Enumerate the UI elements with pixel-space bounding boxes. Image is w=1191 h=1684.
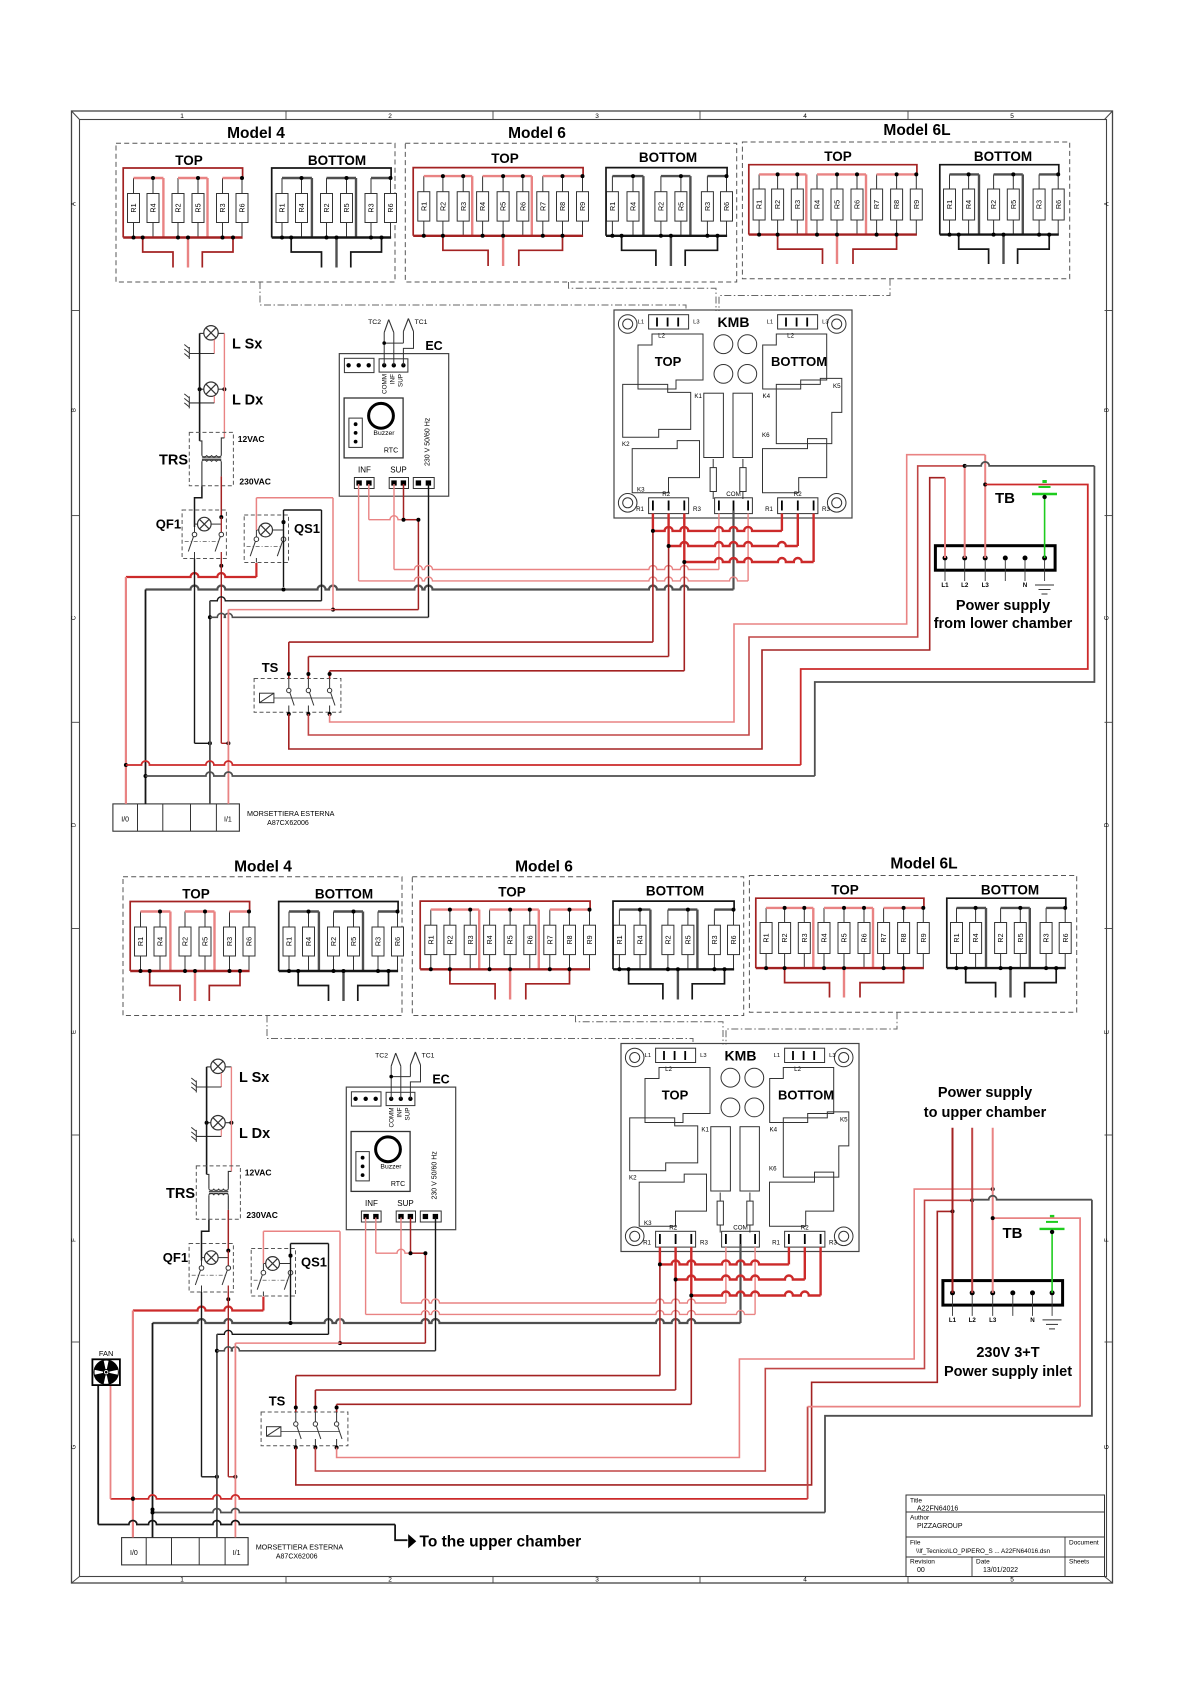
svg-text:R1: R1 — [945, 200, 954, 209]
resistor R7 (Model 6L TOP bank lower) — [878, 908, 890, 968]
svg-text:R3: R3 — [693, 506, 701, 513]
svg-text:to upper chamber: to upper chamber — [924, 1105, 1047, 1121]
svg-text:R1: R1 — [426, 935, 435, 944]
resistor R3 (Model 6 BOTTOM bank upper) — [701, 176, 713, 236]
connector SUP (EC bottom) (upper) — [389, 478, 408, 489]
terminal block TB (upper) — [935, 546, 1055, 571]
svg-text:R1: R1 — [643, 1240, 651, 1247]
svg-text:R6: R6 — [245, 937, 254, 946]
svg-text:L1: L1 — [638, 320, 644, 326]
svg-text:TB: TB — [1003, 1225, 1023, 1242]
svg-text:K5: K5 — [840, 1117, 848, 1124]
resistor R5 (Model 6L BOTTOM bank upper) — [1007, 174, 1019, 234]
svg-text:R5: R5 — [201, 937, 210, 946]
svg-text:G: G — [1105, 1444, 1111, 1449]
svg-text:R5: R5 — [1016, 933, 1025, 942]
label MORSETTIERA ESTERNA (lower) — [256, 1543, 344, 1561]
wire net I0 vertical (lower) — [132, 1311, 134, 1538]
relay coil A (KMB lower) — [711, 1127, 731, 1191]
wire outer loop (Model 4 BOTTOM bank upper) — [272, 168, 391, 238]
resistor R6 (Model 6 TOP bank upper) — [517, 176, 529, 236]
wire tail 3 (Model 6L BOTTOM bank lower) — [1025, 968, 1057, 997]
dashed box QF1 (lower) — [189, 1244, 233, 1293]
wire outer loop (Model 6 TOP bank lower) — [420, 901, 590, 969]
contactor coil TS (upper) — [260, 693, 274, 703]
svg-text:L1: L1 — [767, 320, 773, 326]
contactor linkage TS (upper) — [274, 697, 333, 699]
contactor coil TS (lower) — [267, 1427, 281, 1437]
wire tail 2 (Model 6 TOP bank lower) — [509, 969, 511, 999]
wire outer loop (Model 6 BOTTOM bank upper) — [606, 168, 727, 236]
dashed box QS1 (upper) — [244, 515, 288, 563]
wire tail 2 (Model 4 TOP bank lower) — [194, 971, 196, 1001]
svg-text:R1: R1 — [615, 935, 624, 944]
svg-text:K6: K6 — [769, 1166, 777, 1173]
wire QS1 right to gray bus (lower) — [290, 1256, 292, 1321]
svg-text:R8: R8 — [558, 202, 567, 211]
svg-text:R1: R1 — [636, 506, 644, 513]
resistor R5 (Model 4 BOTTOM bank upper) — [341, 178, 353, 238]
buzzer (EC) (upper) — [369, 403, 394, 428]
wire tail 1 (Model 6L BOTTOM bank upper) — [959, 235, 989, 264]
svg-text:R4: R4 — [820, 933, 829, 942]
svg-text:SUP: SUP — [397, 1199, 413, 1208]
svg-text:R8: R8 — [899, 933, 908, 942]
resistor R4 (Model 6L TOP bank lower) — [818, 908, 830, 968]
wire top bus (Model 4 TOP bank lower) — [141, 912, 250, 972]
svg-text:TRS: TRS — [159, 453, 188, 469]
resistor R2 (Model 6L TOP bank upper) — [772, 174, 784, 234]
wire QF1 left to strip (lower) — [201, 1292, 203, 1477]
svg-text:R3: R3 — [225, 937, 234, 946]
svg-text:R5: R5 — [342, 203, 351, 212]
wire tail 1 (Model 4 BOTTOM bank upper) — [291, 238, 321, 268]
resistor R6 (Model 6 BOTTOM bank upper) — [721, 176, 733, 236]
junctions (Model 4 TOP bank lower) — [139, 910, 252, 974]
wire QF1 left to strip (upper) — [194, 559, 196, 744]
svg-text:R2: R2 — [773, 200, 782, 209]
wire QS1 top net (upper) — [283, 510, 285, 522]
resistor R2 (Model 4 BOTTOM bank lower) — [328, 912, 340, 972]
wire TS2 to TB L2 (lower) — [315, 1200, 972, 1471]
pin labels R1 R2 R3 (left) (upper) — [636, 491, 701, 513]
ground (L Sx) (lower) — [191, 1078, 196, 1093]
wire tail 2 (Model 6 BOTTOM bank lower) — [677, 969, 679, 999]
wire net N vertical (upper) — [145, 590, 147, 804]
RTC module (EC) (upper) — [344, 398, 403, 458]
resistor R4 (Model 6L TOP bank upper) — [811, 174, 823, 234]
terminal strip MORSETTIERA ESTERNA (upper) — [113, 804, 239, 831]
title block — [906, 1495, 1105, 1577]
wire QS1 right to gray bus (upper) — [283, 522, 285, 587]
resistor (KMB B) (lower) — [747, 1193, 753, 1233]
dashed box QF1 (upper) — [182, 510, 226, 559]
wire tail 1 (Model 6L TOP bank lower) — [785, 968, 830, 997]
wire lamp L Sx leads (lower) — [196, 1067, 231, 1087]
connector COMM INF SUP (EC top) (lower) — [386, 1092, 415, 1105]
wire tail 1 (Model 4 TOP bank upper) — [143, 238, 173, 268]
svg-text:MORSETTIERA ESTERNA: MORSETTIERA ESTERNA — [256, 1543, 344, 1552]
contact 2 TS (upper) — [306, 679, 314, 713]
svg-text:QS1: QS1 — [294, 521, 320, 536]
svg-text:Title: Title — [910, 1498, 922, 1505]
svg-text:BOTTOM: BOTTOM — [771, 354, 827, 369]
wire bottom bus (Model 6 TOP bank lower) — [420, 968, 590, 970]
svg-text:RTC: RTC — [384, 448, 398, 455]
resistor R3 (Model 6L BOTTOM bank upper) — [1033, 174, 1045, 234]
wire tail 3 (Model 4 TOP bank lower) — [209, 971, 240, 1001]
wire outer loop (Model 4 TOP bank upper) — [123, 168, 242, 238]
svg-text:R8: R8 — [892, 200, 901, 209]
junctions (Model 4 BOTTOM bank upper) — [280, 176, 393, 240]
relay K6 (KMB upper) — [763, 439, 827, 493]
dash-dot net Model 6L to KMB (lower) — [726, 1012, 897, 1044]
mounting hole 2 (KMB lower) — [834, 1048, 853, 1067]
fan FAN — [92, 1359, 120, 1385]
pin labels L1 L2 L3 (right) (KMB upper) — [767, 320, 829, 340]
svg-text:R2: R2 — [662, 491, 670, 498]
svg-text:from lower chamber: from lower chamber — [934, 616, 1073, 632]
svg-text:INF: INF — [358, 466, 371, 475]
svg-text:4: 4 — [803, 113, 807, 120]
svg-text:TOP: TOP — [175, 153, 203, 168]
dash-dot net Model 4 to KMB (lower) — [267, 1016, 693, 1045]
svg-text:Date: Date — [976, 1559, 990, 1566]
resistor R1 (Model 6 BOTTOM bank lower) — [613, 910, 625, 970]
resistor R5 (Model 4 TOP bank lower) — [199, 912, 211, 972]
wire KMB R2 link (upper) — [667, 514, 669, 547]
svg-text:R9: R9 — [912, 200, 921, 209]
resistor R3 (Model 6 TOP bank lower) — [464, 910, 476, 970]
wire TB L1 stub (upper) — [944, 478, 946, 558]
wire TS2 to TB L2 (upper) — [308, 466, 964, 735]
svg-text:R3: R3 — [822, 506, 830, 513]
wire KMB to TS contact 3 (upper) — [330, 670, 685, 672]
svg-text:R5: R5 — [677, 202, 686, 211]
mounting hole 2 (KMB upper) — [827, 315, 846, 334]
svg-text:INF: INF — [397, 1107, 404, 1117]
wire tail 2 (Model 6L BOTTOM bank lower) — [1009, 968, 1011, 997]
wire lamp feed red (lower) — [230, 1067, 232, 1172]
resistor R4 (Model 6 BOTTOM bank upper) — [627, 176, 639, 236]
svg-text:SUP: SUP — [398, 374, 405, 387]
wire outer loop (Model 4 BOTTOM bank lower) — [279, 902, 398, 972]
junctions (Model 6L BOTTOM bank lower) — [955, 906, 1068, 970]
resistor R8 (Model 6L TOP bank lower) — [898, 908, 910, 968]
resistor R6 (Model 4 BOTTOM bank upper) — [385, 178, 397, 238]
wire net N vertical (lower) — [152, 1323, 154, 1537]
svg-text:R6: R6 — [525, 935, 534, 944]
svg-text:Model 6: Model 6 — [508, 125, 566, 142]
relay K6 (KMB lower) — [770, 1172, 834, 1226]
svg-text:R6: R6 — [1054, 200, 1063, 209]
connector SUP (EC bottom) (lower) — [396, 1211, 415, 1222]
resistor R1 (Model 6 TOP bank upper) — [418, 176, 430, 236]
svg-text:L2: L2 — [961, 582, 969, 589]
wire top bus (Model 6 TOP bank lower) — [431, 910, 590, 970]
svg-text:12VAC: 12VAC — [238, 434, 265, 444]
wire EC SUP to KMB (lower) — [400, 1218, 402, 1304]
svg-text:R7: R7 — [538, 202, 547, 211]
wire KMB R3 link (lower) — [690, 1247, 692, 1296]
resistor R9 (Model 6 TOP bank lower) — [584, 910, 596, 970]
resistor R1 (Model 6L TOP bank upper) — [753, 174, 765, 234]
dash-dot net Model 6L to KMB (upper) — [719, 279, 890, 311]
svg-text:R5: R5 — [349, 937, 358, 946]
svg-text:K2: K2 — [622, 441, 630, 448]
mounting hole 3 (KMB lower) — [625, 1227, 644, 1246]
terminal block TB (lower) — [943, 1281, 1063, 1306]
wire TB L2 feed (lower) — [971, 1128, 973, 1293]
svg-text:R1: R1 — [285, 937, 294, 946]
svg-text:R3: R3 — [374, 937, 383, 946]
svg-text:R2: R2 — [780, 933, 789, 942]
svg-text:R4: R4 — [964, 200, 973, 209]
wire QS1 left salmon net (upper) — [255, 498, 257, 530]
svg-text:TOP: TOP — [491, 151, 519, 166]
svg-text:R5: R5 — [840, 933, 849, 942]
svg-text:E: E — [72, 1030, 78, 1034]
resistor R3 (Model 6 BOTTOM bank lower) — [708, 910, 720, 970]
dashed box Model 6L (upper) — [742, 142, 1069, 279]
relay K1 (KMB upper) — [623, 384, 691, 437]
resistor R3 (Model 4 BOTTOM bank lower) — [372, 912, 384, 972]
svg-text:R2: R2 — [174, 203, 183, 212]
controller board EC (lower) — [346, 1087, 455, 1230]
wire top bus (Model 6 BOTTOM bank lower) — [619, 910, 733, 970]
svg-text:SUP: SUP — [405, 1108, 412, 1121]
svg-text:L2: L2 — [969, 1317, 977, 1324]
wire bottom bus (Model 6L BOTTOM bank upper) — [940, 233, 1059, 235]
svg-text:R6: R6 — [853, 200, 862, 209]
wire TC1 to EC SUP (lower) — [410, 1065, 420, 1099]
svg-text:L3: L3 — [822, 320, 828, 326]
svg-text:R3: R3 — [466, 935, 475, 944]
wire tail 1 (Model 4 BOTTOM bank lower) — [298, 971, 328, 1001]
svg-text:K2: K2 — [629, 1175, 637, 1182]
junctions (Model 6 BOTTOM bank upper) — [610, 174, 728, 238]
connector R1 R2 R3 (left) (KMB lower) — [656, 1231, 696, 1247]
resistor R5 (Model 4 BOTTOM bank lower) — [348, 912, 360, 972]
svg-text:R9: R9 — [578, 202, 587, 211]
resistor R4 (Model 6 TOP bank upper) — [477, 176, 489, 236]
wire QF1 right to strip (upper) — [220, 559, 222, 744]
resistor R9 (Model 6 TOP bank upper) — [577, 176, 589, 236]
svg-text:TOP: TOP — [831, 883, 859, 898]
connector R1 R2 R3 (right) (KMB upper) — [778, 498, 818, 514]
relay coil B (KMB upper) — [733, 393, 752, 457]
ground (L Dx) (upper) — [184, 394, 189, 409]
svg-text:I/0: I/0 — [121, 816, 129, 823]
thermocouple TC2 (lower) — [391, 1053, 401, 1066]
wire tail 3 (Model 4 BOTTOM bank upper) — [351, 238, 382, 268]
lamp L Dx (lower) — [211, 1116, 225, 1130]
resistor R3 (Model 6L TOP bank upper) — [791, 174, 803, 234]
svg-text:I/0: I/0 — [130, 1550, 138, 1557]
connector R1 R2 R3 (left) (KMB upper) — [649, 498, 689, 514]
svg-text:K4: K4 — [763, 393, 771, 400]
contact 1 TS (lower) — [294, 1412, 302, 1446]
resistor R6 (Model 6L TOP bank upper) — [851, 174, 863, 234]
svg-text:G: G — [72, 1444, 78, 1449]
svg-text:R6: R6 — [238, 203, 247, 212]
svg-text:R1: R1 — [755, 200, 764, 209]
dashed box Model 6 (upper) — [405, 143, 736, 282]
wire phase loop red (lower) — [111, 1495, 808, 1499]
mounting hole 4 (KMB upper) — [827, 494, 846, 513]
svg-text:K1: K1 — [694, 393, 702, 400]
transformer holes (KMB upper) — [714, 335, 757, 383]
resistor R8 (Model 6 TOP bank upper) — [557, 176, 569, 236]
wire tail 2 (Model 6L TOP bank lower) — [843, 968, 845, 997]
wire EC 230V-N branch (lower) — [217, 1347, 436, 1351]
wire tail 3 (Model 6 TOP bank upper) — [519, 236, 563, 266]
TB pin leads (lower) — [953, 1295, 1053, 1316]
svg-text:R2: R2 — [664, 935, 673, 944]
svg-text:C: C — [72, 615, 78, 620]
wire phase loop red (upper) — [126, 761, 801, 765]
resistor R7 (Model 6 TOP bank upper) — [537, 176, 549, 236]
svg-text:To the upper chamber: To the upper chamber — [420, 1534, 582, 1551]
svg-text:D: D — [72, 822, 78, 827]
svg-text:R2: R2 — [322, 203, 331, 212]
svg-text:00: 00 — [917, 1567, 925, 1574]
resistor R4 (Model 4 TOP bank upper) — [147, 178, 159, 238]
svg-text:R5: R5 — [833, 200, 842, 209]
wire TS1 to TB L1 (upper) — [289, 478, 945, 749]
junctions (Model 6 TOP bank lower) — [429, 908, 592, 972]
svg-text:R5: R5 — [506, 935, 515, 944]
dashed box TRS (upper) — [189, 432, 233, 485]
svg-text:A87CX62006: A87CX62006 — [276, 1554, 318, 1561]
wire red bus (lower) — [133, 1307, 264, 1311]
pin labels L1 L2 L3 (right) (KMB lower) — [774, 1053, 836, 1073]
wire lamp L Dx leads (upper) — [189, 387, 226, 403]
dashed box QS1 (lower) — [251, 1249, 295, 1297]
wire tail 1 (Model 6 BOTTOM bank lower) — [629, 969, 663, 999]
svg-text:BOTTOM: BOTTOM — [778, 1088, 834, 1103]
wire EC 230V-L net (upper) — [228, 609, 333, 611]
resistor R5 (Model 6L BOTTOM bank lower) — [1014, 908, 1026, 968]
svg-text:A87CX62006: A87CX62006 — [267, 820, 309, 827]
wire EC SUP2 dark red (lower) — [410, 1218, 412, 1254]
svg-text:INF: INF — [365, 1199, 378, 1208]
wire tail 1 (Model 6 TOP bank upper) — [443, 236, 488, 266]
resistor R6 (Model 6L TOP bank lower) — [858, 908, 870, 968]
svg-text:TOP: TOP — [824, 149, 852, 164]
relay K1 (KMB lower) — [630, 1118, 698, 1171]
resistor R3 (Model 4 TOP bank lower) — [224, 912, 236, 972]
svg-text:R7: R7 — [872, 200, 881, 209]
svg-text:C: C — [1105, 615, 1111, 620]
svg-text:13/01/2022: 13/01/2022 — [983, 1567, 1018, 1574]
svg-text:File: File — [910, 1540, 921, 1547]
resistor R4 (Model 6L BOTTOM bank lower) — [970, 908, 982, 968]
label MORSETTIERA ESTERNA (upper) — [247, 809, 335, 827]
junctions (Model 4 TOP bank upper) — [132, 176, 245, 240]
wire KMB R2 link (lower) — [674, 1247, 676, 1280]
wire outer loop (Model 6 TOP bank upper) — [413, 168, 583, 236]
wire tail 2 (Model 6 BOTTOM bank upper) — [670, 236, 672, 266]
pin labels R1 R2 R3 (right) (lower) — [772, 1225, 837, 1247]
svg-text:A: A — [1105, 202, 1111, 206]
svg-text:L Dx: L Dx — [232, 393, 263, 409]
svg-text:BOTTOM: BOTTOM — [646, 884, 704, 899]
lamp L Sx (upper) — [204, 326, 218, 340]
mounting hole 3 (KMB upper) — [618, 494, 637, 513]
wire tail 3 (Model 6L TOP bank upper) — [853, 235, 897, 264]
svg-text:L1: L1 — [941, 582, 949, 589]
connector R1 R2 R3 (right) (KMB lower) — [785, 1231, 825, 1247]
svg-text:TOP: TOP — [655, 354, 682, 369]
wire bottom bus (Model 4 TOP bank lower) — [130, 970, 249, 972]
svg-text:B: B — [72, 408, 78, 412]
resistor R4 (Model 6L BOTTOM bank upper) — [963, 174, 975, 234]
svg-text:230 V 50/60 Hz: 230 V 50/60 Hz — [432, 1151, 439, 1200]
resistor R6 (Model 6 TOP bank lower) — [524, 910, 536, 970]
svg-text:R4: R4 — [971, 933, 980, 942]
resistor (KMB A) (upper) — [710, 459, 716, 499]
svg-text:EC: EC — [425, 339, 442, 353]
svg-text:RTC: RTC — [391, 1181, 405, 1188]
svg-text:Buzzer: Buzzer — [373, 430, 395, 437]
svg-text:EC: EC — [432, 1073, 449, 1087]
svg-text:R3: R3 — [218, 203, 227, 212]
wire QS1 top net (lower) — [290, 1244, 292, 1256]
svg-text:PIZZAGROUP: PIZZAGROUP — [917, 1523, 963, 1530]
resistor R3 (Model 4 TOP bank upper) — [217, 178, 229, 238]
earth symbol green (TB lower) — [1040, 1215, 1065, 1234]
svg-text:R6: R6 — [1061, 933, 1070, 942]
relay block TOP (KMB upper) — [638, 334, 703, 389]
svg-text:SUP: SUP — [390, 466, 406, 475]
wire lamp feed black (upper) — [199, 333, 201, 441]
mounting hole 1 (KMB upper) — [618, 315, 637, 334]
svg-text:L1: L1 — [949, 1317, 957, 1324]
wire bottom bus (Model 4 BOTTOM bank lower) — [279, 970, 398, 972]
svg-text:Power supply: Power supply — [938, 1085, 1032, 1101]
contact 2 TS (lower) — [313, 1412, 321, 1446]
transformer holes (KMB lower) — [721, 1068, 764, 1117]
wire TC1 to EC SUP (upper) — [403, 331, 413, 365]
wire bottom bus (Model 6 BOTTOM bank upper) — [606, 235, 727, 237]
wire top bus (Model 6L TOP bank lower) — [766, 908, 923, 968]
contact 3 TS (lower) — [334, 1412, 342, 1446]
svg-text:B: B — [1105, 408, 1111, 412]
dashed box Model 6L (lower) — [749, 876, 1076, 1013]
svg-text:L1: L1 — [774, 1053, 780, 1059]
resistor R8 (Model 6 TOP bank lower) — [564, 910, 576, 970]
resistor R7 (Model 6L TOP bank upper) — [871, 174, 883, 234]
svg-text:TS: TS — [262, 660, 279, 675]
controller board EC (upper) — [339, 354, 448, 497]
svg-text:TRS: TRS — [166, 1186, 195, 1202]
wire lamp feed black (lower) — [206, 1067, 208, 1175]
svg-text:2: 2 — [388, 1577, 392, 1584]
resistor R2 (Model 6 BOTTOM bank upper) — [655, 176, 667, 236]
wire EC 230V-L net (lower) — [235, 1342, 340, 1344]
svg-text:Buzzer: Buzzer — [380, 1163, 402, 1170]
svg-text:Power supply: Power supply — [956, 598, 1050, 614]
connector COM (KMB lower) — [722, 1231, 760, 1247]
relay coil B (KMB lower) — [740, 1127, 759, 1191]
svg-text:R3: R3 — [1042, 933, 1051, 942]
svg-text:R6: R6 — [729, 935, 738, 944]
switch QS1 contacts (upper) — [247, 520, 286, 562]
svg-text:F: F — [1105, 1238, 1111, 1242]
connector J2 (RTC) (upper) — [349, 418, 362, 447]
resistor R3 (Model 6L TOP bank lower) — [798, 908, 810, 968]
